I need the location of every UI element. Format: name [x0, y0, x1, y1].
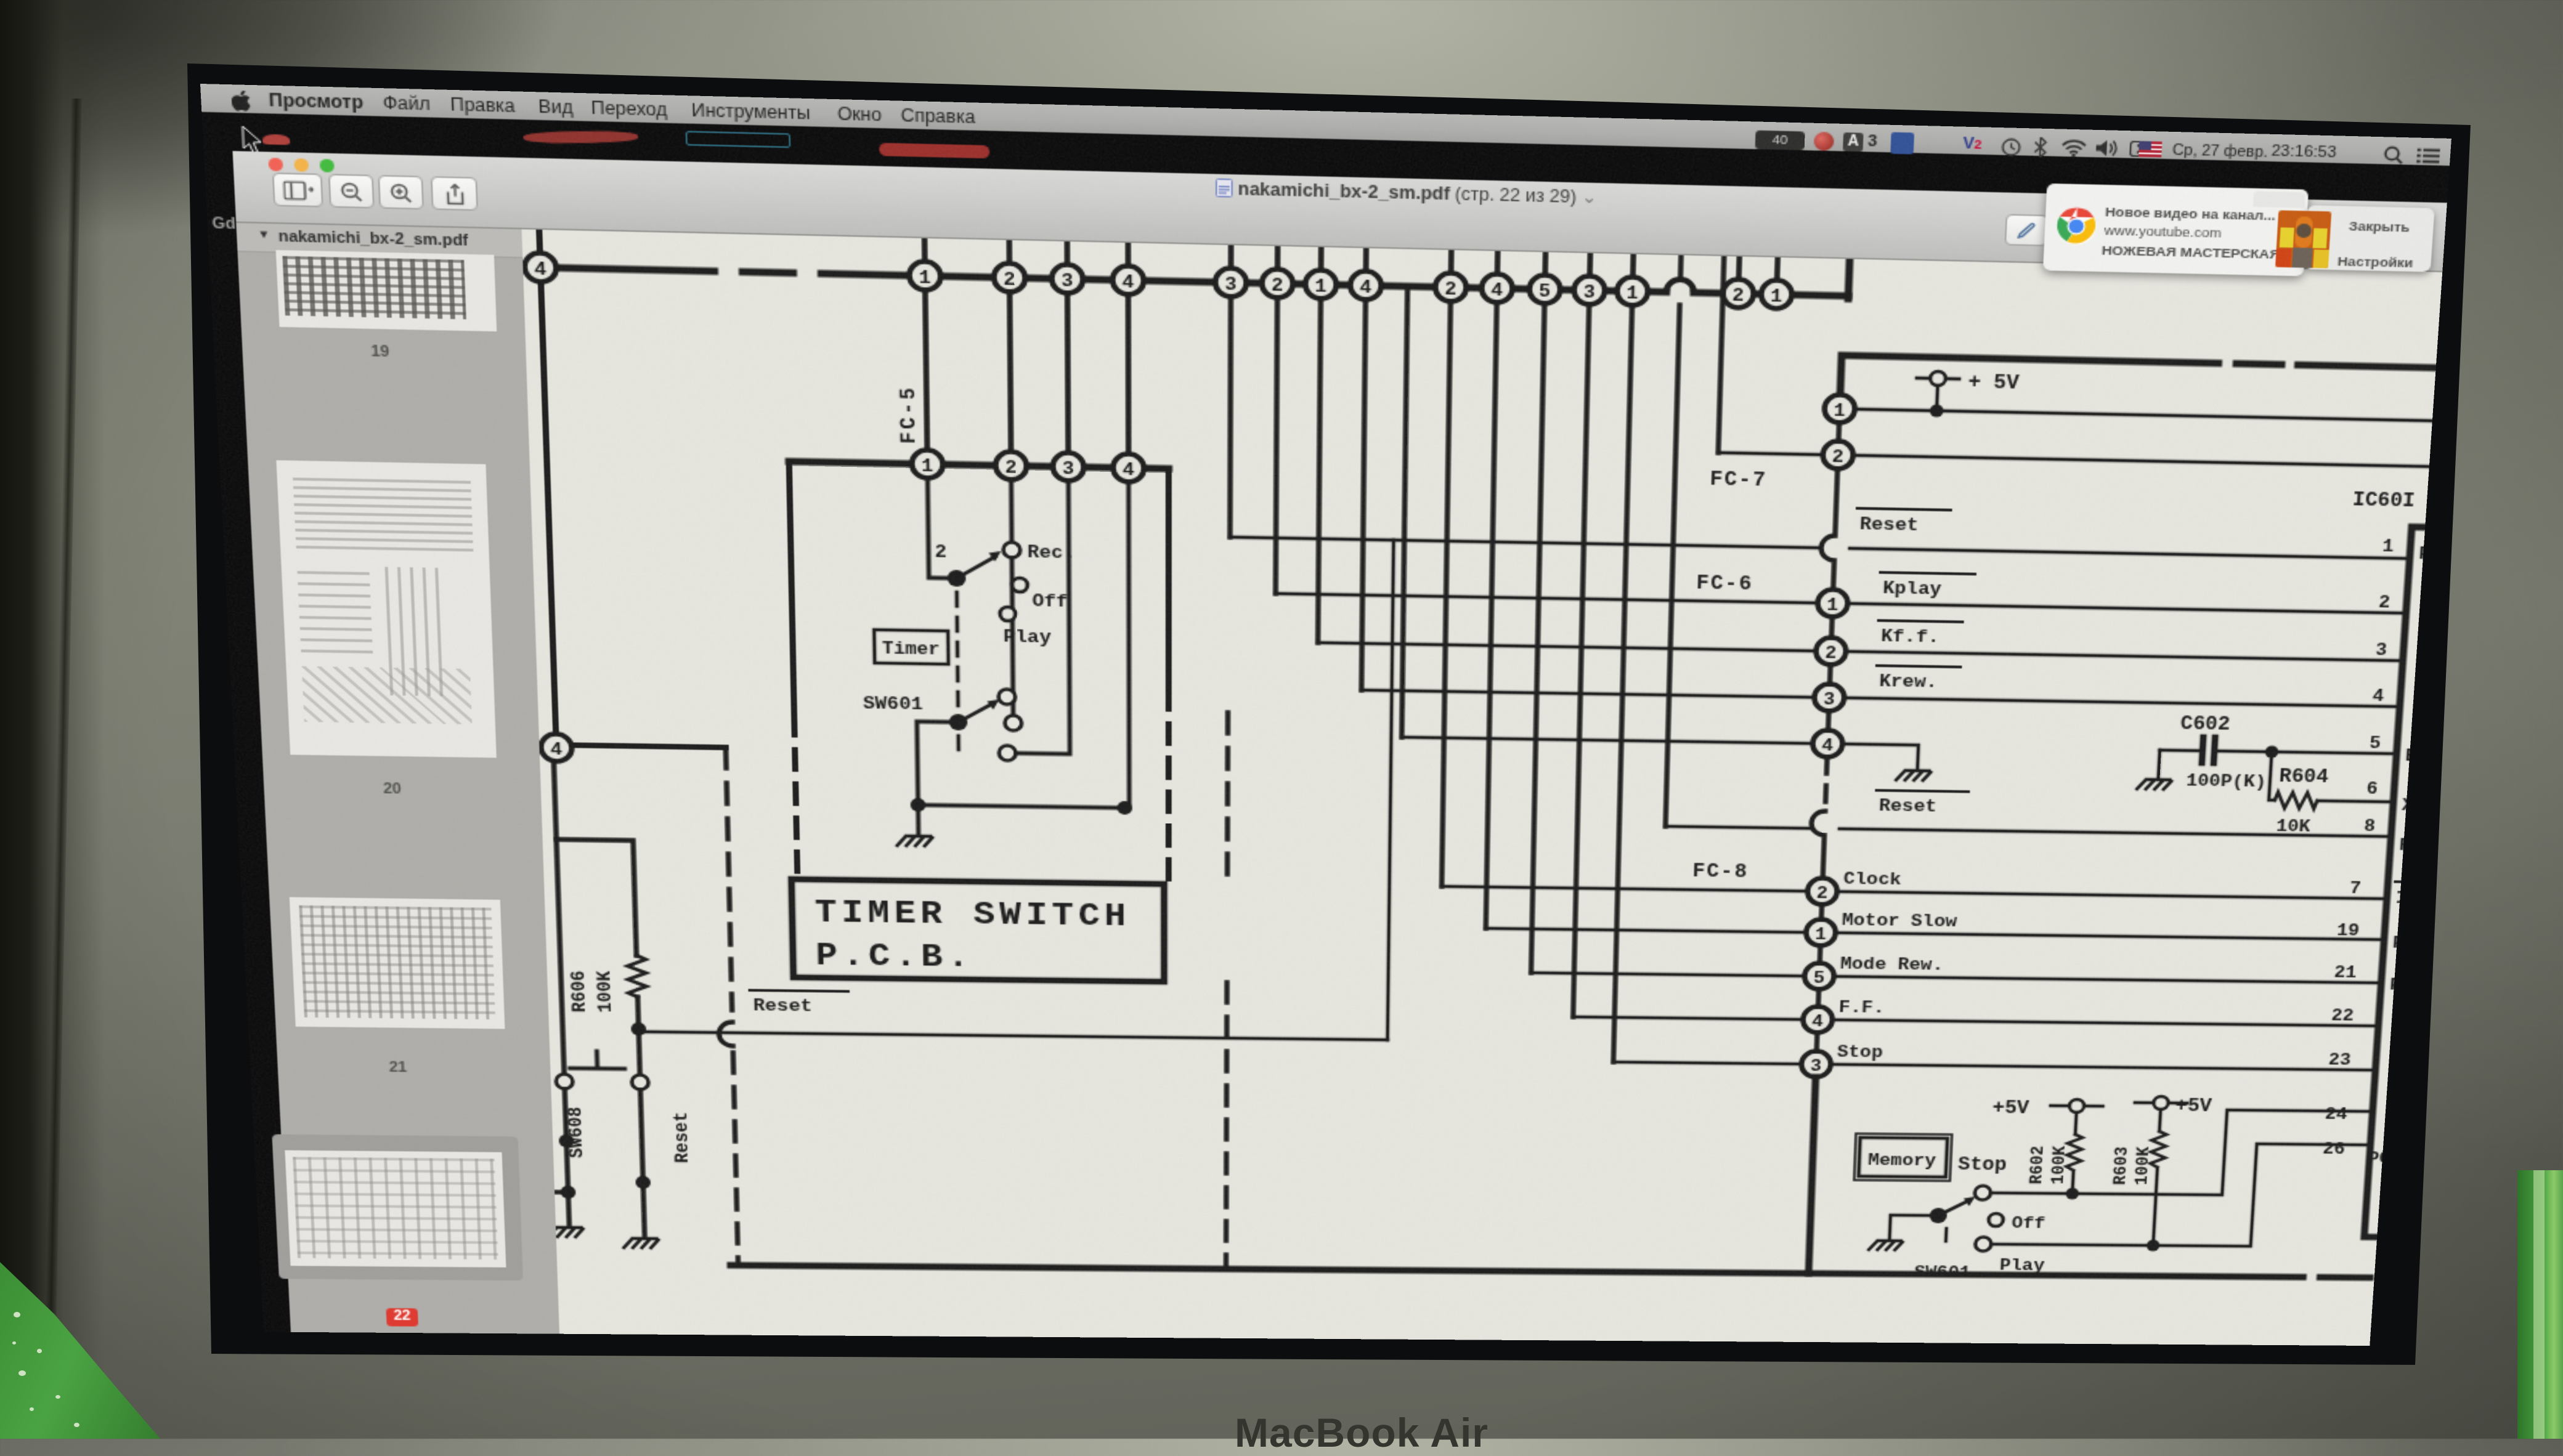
ground right leg [623, 1239, 658, 1248]
svg-text:7: 7 [2349, 879, 2362, 899]
svg-text:2: 2 [1004, 269, 1016, 291]
power +5V tap [1915, 371, 1960, 417]
wire bottom thick rail [731, 1265, 2370, 1277]
svg-text:3: 3 [2375, 641, 2388, 661]
wire matrix vertical from bus g3 pin4 [1486, 302, 1497, 928]
svg-text:2: 2 [1445, 279, 1457, 300]
wire left vertical from bus pin 4 [539, 230, 556, 734]
svg-text:Reset: Reset [670, 1112, 694, 1163]
contact SW601 Stop [1975, 1186, 1991, 1200]
contact lower top [999, 689, 1016, 705]
svg-text:1: 1 [919, 267, 931, 289]
box Memory label [1854, 1133, 1952, 1181]
connector bus pins group 3 [1435, 273, 1648, 306]
wire tick below lower common [957, 736, 959, 750]
connector FC-8 pin 3 [1801, 1051, 1831, 1077]
svg-text:4: 4 [1821, 736, 1834, 756]
wire Kplay line [1275, 594, 2406, 613]
wire matrix vertical from bus g3 pin1 [1614, 305, 1632, 1062]
wire lower common to ground branch [917, 722, 959, 802]
wire top bus [545, 267, 1848, 296]
wire reset net vertical through bus hop [1665, 255, 1681, 826]
svg-text:Clock: Clock [1843, 870, 1902, 890]
wire Reset riser up to FC-6 reset line [1387, 540, 1394, 1040]
wire FC-8 column to bottom rail [1809, 1077, 1816, 1273]
label Kff overline [1878, 620, 1963, 647]
wire right column FC-7 to FC-6 with reset hop [1820, 423, 1840, 589]
label Reset overline right upper [1856, 508, 1951, 536]
connector FC-7 pin 1 [1824, 394, 1856, 423]
switch SW608 reset push button [555, 1051, 649, 1090]
svg-text:22: 22 [2331, 1006, 2355, 1025]
contact SW601 Play [1975, 1237, 1992, 1251]
wire timer outer dashed box left edge [726, 748, 732, 1010]
svg-text:4: 4 [1811, 1012, 1824, 1031]
wire Reset line from R606 to riser [639, 1032, 1387, 1040]
wire C602 left leg to ground [2158, 750, 2159, 777]
svg-text:FC-8: FC-8 [1692, 861, 1749, 883]
svg-text:1: 1 [1626, 283, 1638, 304]
ground SW601 lower [1869, 1240, 1903, 1250]
svg-text:Stop: Stop [1837, 1043, 1883, 1062]
svg-text:8: 8 [2363, 817, 2376, 836]
wire matrix vertical junction drop [1402, 286, 1407, 737]
svg-text:2: 2 [2378, 593, 2391, 613]
node left leg junction a [559, 1134, 574, 1148]
svg-text:TIMER SWITCH: TIMER SWITCH [814, 895, 1131, 936]
ground C602 [2137, 779, 2172, 789]
svg-text:SW601: SW601 [1914, 1263, 1971, 1282]
wire FC-5 pin1 into switch common [928, 478, 951, 578]
svg-text:Memory: Memory [1867, 1151, 1936, 1171]
connector FC-6 pin 3 [1814, 684, 1845, 711]
svg-text:4: 4 [1122, 272, 1134, 294]
switch SW601 upper arm [956, 556, 995, 579]
svg-text:IC60I: IC60I [2352, 490, 2416, 512]
svg-text:Krew.: Krew. [1879, 671, 1938, 692]
wire Stop contact line [1991, 1107, 2373, 1196]
connector FC-5 pins 1-4 [912, 450, 1144, 482]
svg-text:2: 2 [1732, 285, 1744, 306]
box Timer label [874, 629, 949, 664]
connector FC-7 pin 2 [1822, 441, 1854, 469]
wire EX pin5 line [2272, 752, 2397, 754]
svg-text:2: 2 [1005, 458, 1017, 479]
wire column links FC-6 [1828, 617, 1832, 730]
wire SW601 common to ground [1890, 1215, 1938, 1239]
svg-text:Motor Slow: Motor Slow [1842, 911, 1957, 932]
svg-text:1: 1 [1834, 401, 1846, 422]
connector FC-6 pin 1 [1817, 589, 1848, 617]
svg-text:100K: 100K [2132, 1147, 2155, 1186]
contact SW601 Off [1988, 1213, 2003, 1226]
svg-text:Reset: Reset [753, 996, 812, 1016]
svg-text:3: 3 [1823, 690, 1835, 710]
wire SW608 left leg down [565, 1090, 569, 1225]
connector FC-8 pin 5 [1804, 963, 1834, 989]
svg-text:6: 6 [2366, 779, 2379, 799]
node C602 R604 junction [2265, 746, 2279, 758]
node R602 stop junction [2066, 1187, 2079, 1199]
wire junction down to SW608 [639, 1036, 640, 1075]
wire matrix vertical from bus g3 pin2 [1442, 302, 1450, 886]
svg-text:4: 4 [550, 740, 563, 760]
wire FC-7 pin1 +5V line [1840, 409, 2432, 421]
svg-text:3: 3 [1583, 282, 1596, 303]
ground timer switch [897, 836, 932, 846]
connector FC-8 pin 1 [1806, 919, 1836, 946]
svg-text:1: 1 [2382, 536, 2395, 557]
svg-text:Play: Play [1003, 627, 1051, 648]
wire stubs above bus connectors [925, 238, 1778, 280]
wire column reset hop lower [1810, 811, 1826, 878]
svg-text:23: 23 [2328, 1051, 2352, 1070]
wire F.F. line [1573, 1017, 2378, 1026]
svg-text:R603: R603 [2111, 1146, 2133, 1185]
svg-text:2: 2 [1271, 275, 1283, 296]
svg-text:R602: R602 [2027, 1146, 2049, 1184]
connector FC-8 pin 2 [1807, 878, 1838, 905]
connector bus pins group 1 [909, 261, 1144, 295]
svg-text:3: 3 [1810, 1057, 1822, 1076]
connector circled 4 (lower left) [540, 734, 572, 761]
wire FC-7 pin2 line [1718, 453, 2429, 467]
wire ground stem [917, 809, 920, 834]
svg-text:100K: 100K [593, 971, 617, 1013]
wire SW608 right leg down [640, 1090, 644, 1236]
svg-text:R606: R606 [567, 971, 591, 1013]
svg-text:5: 5 [2369, 734, 2382, 753]
wire FC-5 pin4 drop [1129, 482, 1129, 804]
svg-text:1: 1 [1814, 925, 1827, 945]
svg-text:SW601: SW601 [863, 694, 924, 714]
switch SW601 lower right arm [1929, 1196, 1975, 1223]
wire junction down to X1 line [2269, 752, 2278, 800]
node left leg junction b [561, 1186, 576, 1199]
svg-text:2: 2 [1825, 644, 1837, 664]
contact Off (upper) [1012, 578, 1028, 592]
wire column links FC-8 [1817, 905, 1822, 1051]
wire timer outer dashed box right edge [1226, 713, 1228, 1269]
connector bus pins group 4 [1723, 279, 1792, 309]
wire R604 to IC [2317, 801, 2394, 802]
svg-text:1: 1 [921, 456, 933, 477]
svg-text:+ 5V: + 5V [1968, 371, 2020, 395]
label In clipped [2394, 882, 2419, 908]
wire Motor Slow line [1486, 928, 2384, 939]
connector bus pins group 2 [1216, 268, 1382, 300]
connector bus pin 4 [524, 253, 557, 282]
node SW601 upper common [948, 570, 966, 587]
svg-text:Off: Off [1032, 591, 1068, 612]
wire FC-5 pin2 drop [1010, 480, 1013, 541]
wire Kff line [1318, 642, 2403, 660]
wire Clock line [1442, 886, 2387, 899]
svg-text:4: 4 [1123, 460, 1135, 481]
svg-text:Kf.f.: Kf.f. [1880, 626, 1940, 647]
svg-text:5: 5 [1813, 969, 1826, 989]
node SW601 lower common [949, 714, 967, 730]
wire matrix vertical from bus g2 pin4 [1362, 300, 1366, 690]
connector FC-8 pin 4 [1803, 1006, 1833, 1033]
svg-text:Stop: Stop [1957, 1155, 2007, 1176]
wire Mode Rew line [1531, 973, 2381, 982]
svg-text:Mode Rew.: Mode Rew. [1840, 955, 1944, 975]
node R603 play junction [2147, 1240, 2160, 1252]
svg-text:3: 3 [1061, 270, 1073, 292]
resistor R603 [2146, 1131, 2166, 1242]
svg-text:2: 2 [1816, 884, 1829, 904]
wire FC-5 drop lines [925, 290, 1129, 454]
svg-text:2: 2 [935, 542, 947, 563]
wire timer inner box right edge [1168, 469, 1170, 684]
svg-text:1: 1 [1770, 286, 1782, 307]
svg-text:1: 1 [1315, 276, 1327, 297]
svg-text:24: 24 [2325, 1105, 2348, 1124]
resistor R606 [627, 955, 647, 997]
svg-text:100K: 100K [2049, 1146, 2071, 1184]
wire matrix vertical from bus g2 pin3 [1230, 297, 1230, 537]
svg-text:FC-7: FC-7 [1710, 469, 1768, 492]
wire FC-6 pin4 line to ground [1402, 737, 1919, 768]
wire mechanical link (dashed) [957, 593, 958, 710]
wire junction to pin4 drop junction [918, 805, 1121, 808]
contact lower mid [1005, 715, 1022, 730]
svg-text:4: 4 [534, 259, 547, 281]
svg-text:3: 3 [1225, 274, 1237, 295]
wire matrix vertical from bus g2 pin2 [1275, 298, 1277, 594]
wire matrix vertical from bus g3 pin5 [1531, 304, 1545, 973]
resistor R604 [2274, 792, 2318, 809]
box IC601 left edge [2364, 527, 2425, 1237]
wire R606 bottom to junction [638, 997, 639, 1029]
svg-text:2: 2 [1832, 447, 1844, 468]
wire matrix vertical from bus g2 pin1 [1318, 299, 1321, 642]
svg-text:4: 4 [1491, 280, 1503, 301]
wire tick below SW601 common [1945, 1229, 1947, 1242]
svg-text:4: 4 [2372, 686, 2385, 706]
svg-text:P.C.B.: P.C.B. [815, 938, 973, 976]
wire left vertical below circled 4 [554, 761, 564, 1074]
wire timer inner box left edge [789, 461, 794, 710]
svg-text:Timer: Timer [882, 640, 940, 660]
svg-text:21: 21 [2333, 963, 2357, 983]
svg-text:Play: Play [1999, 1256, 2045, 1275]
wire Reset pin8 line [1665, 827, 2391, 837]
wire bus riser to page top [1848, 259, 1850, 299]
wire matrix vertical from bus g3 pin3 [1573, 305, 1589, 1017]
wire bus hop over Reset riser [1666, 279, 1694, 293]
svg-text:Reset: Reset [1879, 796, 1937, 817]
wire stub from page edge [541, 1191, 568, 1194]
ground FC-6 pin4 [1896, 770, 1931, 780]
connector FC-6 pin 2 [1816, 637, 1846, 665]
svg-text:100P(K): 100P(K) [2185, 771, 2267, 792]
svg-text:19: 19 [2336, 921, 2360, 940]
wire branch corner to R606 [556, 839, 636, 955]
svg-text:Off: Off [2011, 1214, 2045, 1233]
capacitor C602 [2159, 737, 2268, 764]
svg-text:C602: C602 [2180, 713, 2230, 735]
wire FC-5 connector row [789, 461, 1169, 469]
connector FC-6 pin 4 [1812, 730, 1843, 758]
wire circled-4 branch to outer box [572, 745, 726, 748]
svg-text:R604: R604 [2278, 766, 2329, 788]
svg-text:5: 5 [1538, 281, 1551, 302]
contact lower bottom [999, 745, 1015, 761]
svg-text:10K: 10K [2275, 817, 2311, 836]
label Reset overline right lower [1875, 790, 1968, 817]
node pin4 junction [1117, 801, 1132, 815]
label Krew overline [1876, 666, 1960, 693]
svg-text:3: 3 [1062, 459, 1074, 480]
svg-text:FC-6: FC-6 [1696, 573, 1753, 596]
wire Stop line [1614, 1062, 2376, 1070]
wire column dashed below FC-6 pin4 [1826, 757, 1827, 807]
wire Krew line [1362, 690, 2400, 706]
svg-text:1: 1 [1826, 596, 1838, 616]
svg-text:FC-5: FC-5 [896, 385, 921, 445]
svg-text:4: 4 [1360, 277, 1372, 298]
resistor R602 [2065, 1134, 2082, 1190]
svg-text:+5V: +5V [1992, 1098, 2030, 1119]
wire Play contact line [1992, 1141, 2370, 1247]
node ground branch junction [911, 798, 926, 812]
power +5V tap R603 [2134, 1096, 2188, 1132]
label Reset (overline, left) [750, 990, 848, 1017]
switch SW601 lower arm [958, 705, 990, 723]
power +5V tap R602 [2049, 1099, 2103, 1135]
ground left leg [548, 1227, 583, 1237]
wire Reset line to IC pin 1 [1230, 537, 2410, 559]
label Kplay overline [1880, 572, 1975, 600]
node right leg junction [635, 1176, 651, 1189]
svg-text:Reset: Reset [1859, 514, 1919, 536]
svg-text:F.F.: F.F. [1838, 998, 1885, 1017]
wire pin2 continues to lower mid contact [1012, 559, 1013, 715]
wire FC-7 riser and top dash rail [1840, 355, 2435, 414]
svg-text:Kplay: Kplay [1882, 578, 1941, 599]
wire FC-7 pin2 feeder vertical [1718, 256, 1724, 453]
box TIMER SWITCH P.C.B. label [792, 879, 1164, 981]
svg-text:26: 26 [2322, 1140, 2346, 1159]
svg-text:+5V: +5V [2175, 1096, 2213, 1117]
node R606 reset junction [631, 1022, 646, 1036]
contact Play (upper) [1000, 607, 1015, 621]
contact Rec [1003, 542, 1020, 557]
wire lower bottom contact to FC-5 pin3 [1014, 480, 1070, 754]
